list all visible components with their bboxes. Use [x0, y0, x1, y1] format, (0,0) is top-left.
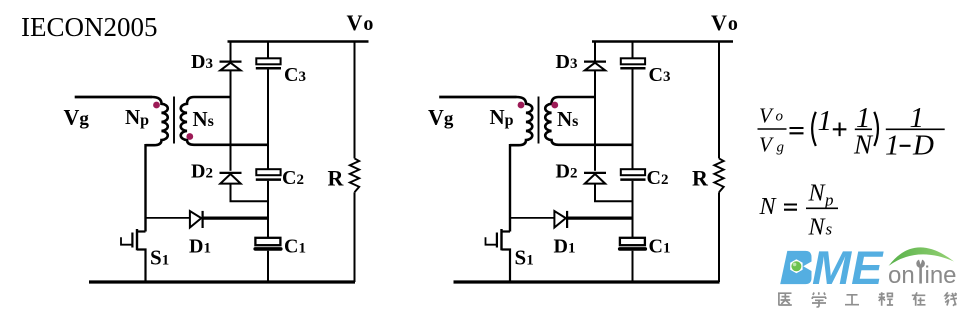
- svg-text:D2: D2: [191, 161, 213, 183]
- svg-text:Vo: Vo: [347, 10, 374, 35]
- svg-text:D1: D1: [554, 236, 576, 258]
- svg-text:Ns: Ns: [557, 107, 578, 131]
- svg-text:ME: ME: [812, 241, 884, 294]
- svg-text:Vo: Vo: [711, 10, 738, 35]
- svg-text:o: o: [776, 109, 784, 125]
- svg-text:IECON2005: IECON2005: [21, 12, 158, 42]
- svg-text:ine: ine: [925, 262, 957, 289]
- svg-text:Vg: Vg: [428, 105, 454, 130]
- svg-text:on: on: [888, 262, 915, 289]
- svg-text:C3: C3: [649, 64, 671, 86]
- svg-text:C1: C1: [649, 236, 671, 258]
- svg-text:Vg: Vg: [64, 105, 90, 130]
- svg-text:Np: Np: [490, 105, 514, 129]
- svg-text:D3: D3: [556, 51, 578, 73]
- svg-text:s: s: [826, 219, 833, 238]
- svg-text:C2: C2: [282, 167, 304, 189]
- svg-text:D3: D3: [191, 51, 213, 73]
- svg-text:1: 1: [885, 130, 900, 162]
- svg-text:N: N: [759, 194, 778, 220]
- svg-text:S1: S1: [150, 246, 169, 270]
- svg-text:R: R: [328, 166, 345, 191]
- svg-text:1: 1: [818, 105, 833, 137]
- svg-text:D2: D2: [556, 161, 578, 183]
- svg-text:N: N: [853, 130, 874, 160]
- svg-text:V: V: [759, 104, 774, 128]
- svg-text:p: p: [824, 191, 834, 210]
- svg-text:N: N: [808, 214, 827, 240]
- svg-text:C1: C1: [284, 236, 306, 258]
- svg-text:R: R: [692, 166, 709, 191]
- svg-text:g: g: [777, 139, 785, 155]
- svg-text:N: N: [808, 181, 827, 207]
- svg-text:Ns: Ns: [193, 107, 214, 131]
- svg-text:D1: D1: [189, 236, 211, 258]
- svg-text:V: V: [759, 132, 774, 156]
- svg-text:Np: Np: [125, 105, 149, 129]
- svg-text:C2: C2: [647, 167, 669, 189]
- svg-text:D: D: [912, 130, 934, 162]
- svg-text:C3: C3: [284, 64, 306, 86]
- svg-text:S1: S1: [515, 246, 534, 270]
